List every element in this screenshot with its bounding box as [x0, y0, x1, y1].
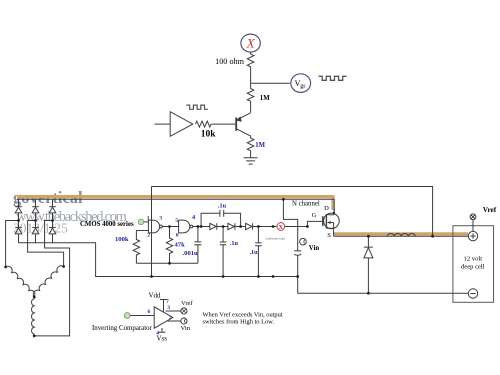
svg-text:1M: 1M: [255, 142, 265, 149]
svg-text:Vdd: Vdd: [149, 292, 162, 300]
svg-text:Vref: Vref: [181, 300, 193, 307]
svg-text:Vin: Vin: [309, 245, 320, 252]
svg-text:.1u: .1u: [250, 249, 259, 256]
svg-text:6: 6: [176, 233, 179, 239]
svg-text:47k: 47k: [175, 241, 186, 248]
svg-text:X: X: [246, 36, 256, 51]
svg-text:(substrate tap): (substrate tap): [266, 237, 285, 241]
svg-text:3: 3: [159, 216, 162, 222]
svg-text:6: 6: [148, 309, 151, 315]
svg-text:N channel: N channel: [292, 201, 320, 208]
svg-text:5: 5: [175, 218, 178, 224]
svg-text:Vin: Vin: [181, 325, 191, 332]
svg-text:deep cell: deep cell: [461, 264, 485, 271]
svg-text:D: D: [324, 205, 329, 212]
svg-text:S: S: [327, 232, 331, 239]
svg-text:1M: 1M: [260, 95, 270, 102]
svg-text:100k: 100k: [115, 236, 129, 243]
svg-text:100 ohm: 100 ohm: [215, 57, 245, 66]
svg-text:.001u: .001u: [183, 250, 199, 257]
svg-text:Inverting Comparator: Inverting Comparator: [92, 325, 153, 332]
svg-text:2: 2: [147, 232, 150, 238]
svg-text:12 volt: 12 volt: [464, 256, 483, 263]
svg-text:Vss: Vss: [157, 335, 168, 343]
svg-text:10k: 10k: [201, 130, 217, 140]
svg-text:gs: gs: [300, 83, 306, 89]
svg-text:.1u: .1u: [218, 203, 227, 210]
svg-text:G: G: [312, 212, 317, 219]
svg-text:.1u: .1u: [230, 240, 239, 247]
svg-text:2: 2: [169, 315, 172, 321]
svg-text:X: X: [279, 225, 284, 231]
svg-text:3: 3: [167, 305, 170, 311]
svg-text:Vref: Vref: [483, 206, 497, 214]
svg-text:CMOS 4000 series: CMOS 4000 series: [80, 221, 134, 228]
svg-text:switches from High to Low.: switches from High to Low.: [203, 318, 275, 325]
svg-text:1: 1: [147, 215, 150, 221]
